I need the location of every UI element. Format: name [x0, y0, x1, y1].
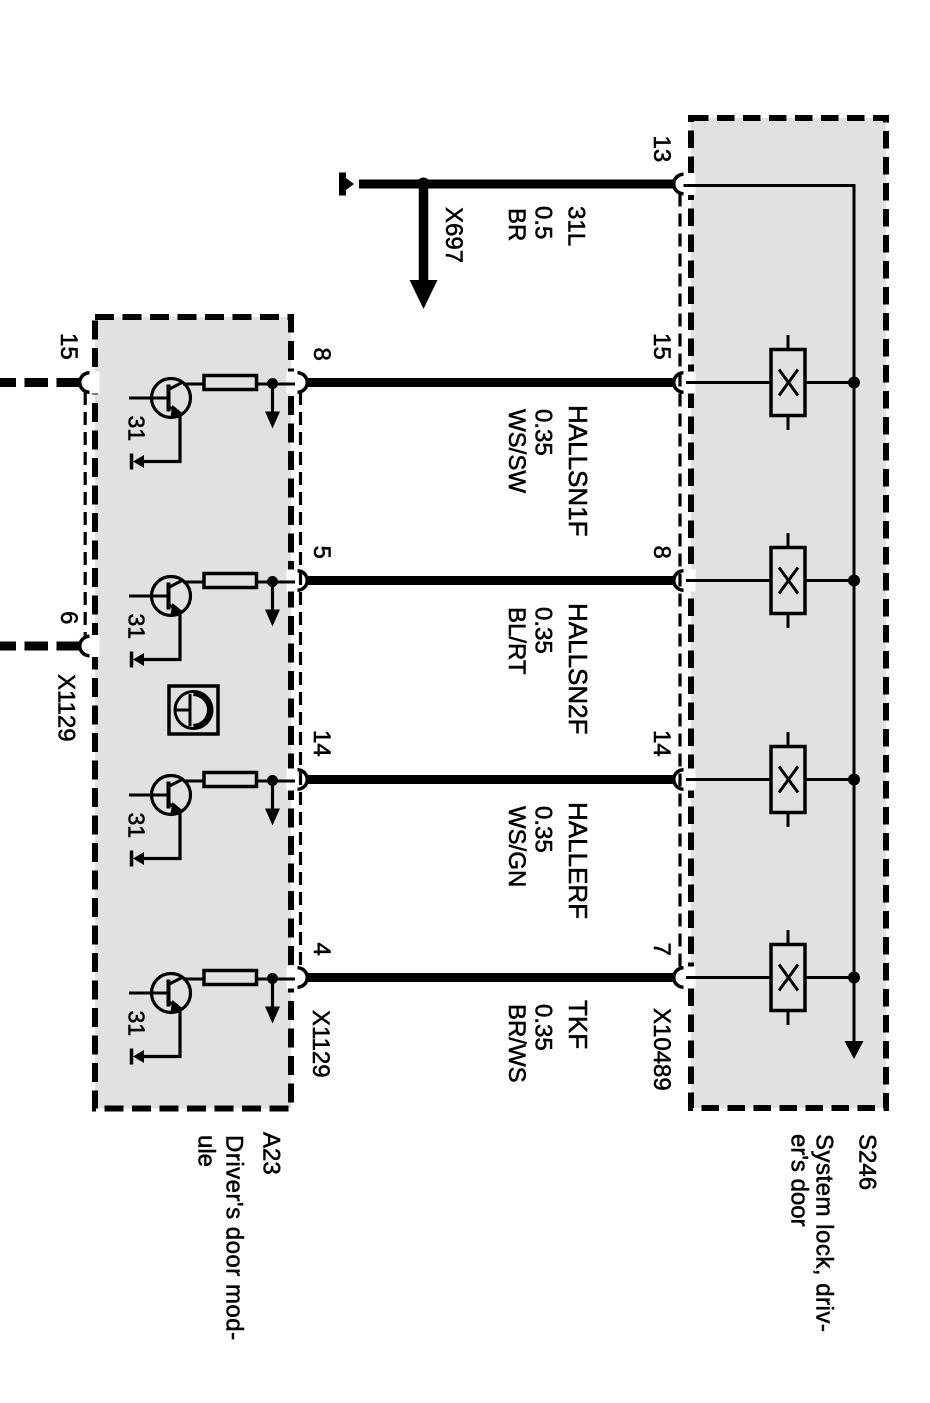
svg-text:er's door: er's door — [785, 1134, 812, 1227]
resistor R1 — [204, 376, 257, 390]
svg-text:A23: A23 — [257, 1132, 284, 1175]
junction — [267, 576, 278, 587]
connector X10489 dashed line (left edge of S246) — [678, 194, 681, 969]
connector pin 13 arc — [674, 174, 684, 194]
ground terminal 31 of Q1 — [130, 454, 134, 470]
wire HALLSN1F 1 — [307, 378, 674, 387]
svg-text:Driver's door mod-: Driver's door mod- — [220, 1135, 247, 1341]
svg-text:31L: 31L — [563, 206, 590, 246]
collector wire of Q1 — [183, 383, 204, 386]
svg-text:WS/GN: WS/GN — [503, 806, 530, 887]
junction — [267, 378, 278, 389]
dashed wire to A23 pin 15 — [0, 378, 80, 387]
svg-text:X1129: X1129 — [307, 1010, 334, 1078]
transistor Q1 — [129, 379, 191, 462]
terminal at left end of 31L wire — [339, 173, 346, 196]
connector arc A23 pin 6 — [80, 636, 90, 656]
connector arc A23 pin 5 — [298, 571, 308, 591]
wire HALLERF 3 — [307, 775, 674, 784]
branch arrow down — [271, 581, 274, 610]
connector X1129 dashed line (left edge of A23) — [84, 392, 87, 637]
junction on bus — [848, 377, 860, 389]
svg-text:31: 31 — [123, 1011, 149, 1037]
connector arc S246 pin 8 — [674, 571, 684, 591]
switch S3 body — [771, 747, 805, 813]
connector arc A23 pin 8 — [298, 373, 308, 393]
connector arc A23 pin 15 — [80, 373, 90, 393]
svg-text:0.5: 0.5 — [530, 206, 557, 239]
junction on bus — [848, 972, 860, 984]
wire resistor to pin — [257, 581, 296, 584]
transistor Q3 — [129, 776, 191, 859]
switch S1 body — [771, 350, 805, 416]
wire HALLSN2F 2 — [307, 576, 674, 585]
wire resistor to pin — [257, 780, 296, 783]
junction — [267, 973, 278, 984]
svg-text:4: 4 — [308, 943, 335, 956]
module A23 Driver's door module box — [95, 317, 291, 1109]
svg-text:5: 5 — [308, 546, 335, 559]
wire branch X697 down arrow — [419, 184, 429, 280]
svg-text:X10489: X10489 — [648, 1008, 675, 1091]
branch arrow down — [271, 780, 274, 809]
svg-text:31: 31 — [123, 614, 149, 640]
svg-text:HALLERF: HALLERF — [563, 802, 593, 919]
collector wire of Q4 — [183, 978, 204, 981]
svg-text:HALLSN1F: HALLSN1F — [563, 405, 593, 537]
resistor R3 — [204, 773, 257, 787]
connector arc A23 pin 4 — [298, 968, 308, 988]
ground terminal 31 of Q3 — [130, 851, 134, 867]
border gaps at connectors — [91, 173, 696, 989]
svg-text:13: 13 — [648, 136, 675, 163]
resistor R4 — [204, 971, 257, 985]
svg-text:0.35: 0.35 — [530, 806, 557, 853]
wire TKF 4 — [307, 973, 674, 982]
svg-text:14: 14 — [308, 730, 335, 757]
junction on bus — [848, 575, 860, 587]
ground terminal 31 of Q4 — [130, 1049, 134, 1065]
connector X1129 dashed line (right edge of A23) — [299, 392, 302, 968]
connector arc S246 pin 7 — [674, 968, 684, 988]
wire pin13 to vertical bus — [684, 186, 855, 1042]
switch S4 leads — [686, 976, 771, 979]
arrow end of bus — [845, 1041, 864, 1059]
branch arrow down — [271, 978, 274, 1007]
svg-text:S246: S246 — [853, 1134, 880, 1190]
connector arc S246 pin 14 — [674, 770, 684, 790]
wire 31L 0.5 BR — [359, 180, 675, 189]
svg-text:31: 31 — [123, 813, 149, 839]
dashed wire to A23 pin 6 — [0, 642, 80, 651]
svg-text:0.35: 0.35 — [530, 409, 557, 456]
svg-text:7: 7 — [648, 943, 675, 956]
connector arc S246 pin 15 — [674, 373, 684, 393]
wire resistor to pin — [257, 383, 296, 386]
collector wire of Q2 — [183, 581, 204, 584]
svg-text:6: 6 — [55, 611, 82, 624]
svg-text:ule: ule — [192, 1135, 219, 1167]
svg-text:BR/WS: BR/WS — [503, 1004, 530, 1083]
junction — [267, 775, 278, 786]
svg-text:8: 8 — [308, 348, 335, 361]
svg-text:0.35: 0.35 — [530, 1004, 557, 1051]
module S246 System lock box — [691, 118, 886, 1108]
svg-text:X1129: X1129 — [53, 674, 80, 742]
svg-text:TKF: TKF — [563, 1000, 593, 1049]
svg-text:14: 14 — [648, 730, 675, 757]
connector arc A23 pin 14 — [298, 770, 308, 790]
svg-text:15: 15 — [55, 333, 82, 360]
ground terminal 31 of Q2 — [130, 652, 134, 668]
svg-text:8: 8 — [648, 546, 675, 559]
svg-text:0.35: 0.35 — [530, 607, 557, 654]
transistor Q2 — [129, 577, 191, 660]
svg-text:HALLSN2F: HALLSN2F — [563, 603, 593, 735]
svg-text:BR: BR — [503, 208, 530, 241]
svg-text:31: 31 — [123, 416, 149, 442]
svg-text:System lock, driv-: System lock, driv- — [810, 1134, 837, 1332]
switch S1 leads — [686, 381, 771, 384]
junction on 31L wire — [417, 178, 430, 191]
svg-text:X697: X697 — [440, 207, 467, 263]
svg-text:WS/SW: WS/SW — [503, 409, 530, 493]
actuator symbol (motor) M — [169, 686, 218, 734]
switch S2 body — [771, 548, 805, 614]
svg-text:BL/RT: BL/RT — [503, 607, 530, 675]
wire resistor to pin — [257, 978, 296, 981]
collector wire of Q3 — [183, 780, 204, 783]
switch S2 leads — [686, 579, 771, 582]
resistor R2 — [204, 574, 257, 588]
svg-text:15: 15 — [648, 333, 675, 360]
branch arrow down — [271, 383, 274, 412]
switch S4 body — [771, 945, 805, 1011]
transistor Q4 — [129, 974, 191, 1057]
switch S3 leads — [686, 778, 771, 781]
junction on bus — [848, 774, 860, 786]
